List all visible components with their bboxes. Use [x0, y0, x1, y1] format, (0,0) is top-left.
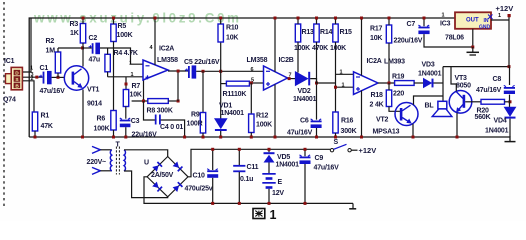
svg-text:9014: 9014 [87, 101, 102, 108]
svg-text:470u/25v: 470u/25v [185, 186, 213, 193]
resistor R13 [295, 24, 300, 42]
wire C3 to rail [125, 127, 127, 137]
regulator IC3 78L06 box [455, 12, 493, 30]
wire R7 jog from input [125, 77, 127, 90]
wire C1 to VT1 base [52, 76, 65, 78]
wire VD3 to riser [434, 82, 444, 84]
node dot R17 rail [388, 17, 391, 20]
wire R17 to rail [388, 18, 390, 25]
svg-text:VT1: VT1 [87, 87, 100, 94]
svg-text:R4 4.7K: R4 4.7K [114, 50, 138, 57]
svg-text:47u/16V: 47u/16V [40, 88, 66, 95]
svg-text:1N4001: 1N4001 [418, 71, 442, 78]
node dot pin3/C1 junction [35, 76, 38, 79]
torn page dotted edge [3, 2, 5, 206]
svg-text:R14: R14 [320, 29, 333, 36]
svg-text:IC2A: IC2A [367, 58, 382, 65]
resistor R12 [249, 114, 254, 133]
bridge diode top-left [152, 161, 162, 171]
svg-text:100K: 100K [294, 45, 310, 52]
node dot C11 bottom [238, 202, 241, 205]
wire comparator minus input stub [336, 86, 354, 88]
node dot R5 rail [112, 17, 115, 20]
resistor R11 [226, 81, 249, 86]
node dot C7 rail [423, 17, 426, 20]
svg-text:C6: C6 [300, 118, 309, 125]
wire R9 column [202, 71, 204, 112]
svg-text:100K: 100K [94, 126, 110, 133]
node dot C9 top [304, 148, 307, 151]
resistor R7 [123, 90, 128, 107]
wire C11 bottom stub [238, 172, 240, 203]
wire C8 bottom stub [509, 95, 511, 108]
svg-text:C1: C1 [40, 65, 49, 72]
diode VD5 [264, 152, 275, 162]
wire C10 bottom stub [212, 178, 214, 204]
svg-text:R9: R9 [191, 112, 200, 119]
svg-text:1N4001: 1N4001 [485, 128, 509, 135]
wire R7 to C3 [125, 107, 127, 119]
svg-text:R13: R13 [302, 29, 315, 36]
wire VT2 emitter [412, 124, 414, 137]
resistor R5 [111, 24, 116, 42]
top +12V rail wire [29, 18, 455, 137]
svg-text:C3: C3 [131, 118, 140, 125]
svg-text:R19: R19 [392, 74, 405, 81]
capacitor C6 [311, 119, 322, 128]
resistor R6 [111, 111, 116, 131]
transistor VT2 [395, 103, 418, 126]
svg-text:VD2: VD2 [298, 88, 311, 95]
wire R3 to rail [82, 18, 84, 24]
node dot C8 bottom [509, 100, 512, 103]
svg-text:5: 5 [251, 78, 254, 84]
svg-text:R10: R10 [226, 25, 239, 32]
node dot R13 rail [297, 17, 300, 20]
wire R11 left tap [221, 83, 227, 85]
wire VD3 node riser [442, 67, 444, 102]
wire R14 to rail [316, 18, 318, 24]
svg-text:1: 1 [498, 13, 501, 19]
svg-text:VT2: VT2 [376, 117, 389, 124]
svg-text:R17: R17 [370, 26, 383, 33]
svg-text:C2: C2 [89, 35, 98, 42]
diode VD4 [505, 107, 516, 118]
resistor R14 [314, 24, 319, 42]
wire C7 bottom to IC3 gnd [424, 34, 473, 47]
battery E [262, 173, 275, 189]
node dot IC3 gnd [471, 46, 474, 49]
bottom ground rail wire [29, 137, 510, 141]
wire C9 bottom stub [304, 164, 306, 203]
wire R4 bottom stub [107, 72, 109, 77]
node dot IC2B output [288, 77, 291, 80]
resistor R16 [333, 112, 338, 133]
diode VD1 [215, 119, 227, 131]
wire R8 right to output column [168, 100, 178, 102]
resistor R8 [148, 99, 169, 104]
wire comparator power bottom [361, 91, 363, 138]
node dot IC2A power rail [154, 17, 157, 20]
svg-text:1: 1 [442, 13, 445, 19]
capacitor C4 [155, 115, 161, 125]
svg-text:R5: R5 [118, 23, 127, 30]
svg-text:BL: BL [425, 103, 435, 110]
svg-text:VD3: VD3 [422, 62, 435, 69]
wire VT3 emitter [456, 113, 458, 137]
svg-text:220u/16V: 220u/16V [394, 38, 423, 45]
node dot +12V top [508, 14, 511, 17]
wire R2 bottom to base wire [57, 73, 59, 77]
node dot R8 right [177, 100, 180, 103]
wire R5 to rail [113, 18, 115, 24]
wire VD1 to rail [220, 131, 222, 137]
op-amp IC2A [143, 60, 168, 80]
wire R19 to VD3 [414, 82, 423, 84]
svg-text:R8 300K: R8 300K [147, 108, 173, 115]
bridge diode bottom-right [173, 182, 183, 192]
svg-text:Q74: Q74 [3, 97, 16, 104]
wire IC3 output pin to +12V column [491, 19, 509, 21]
node dot C10 top [211, 148, 214, 151]
AC source chevron lower [92, 167, 100, 174]
wire C2 to +input corner [100, 48, 143, 64]
ground symbol return end [349, 203, 356, 208]
wire node48 horizontal [58, 47, 83, 49]
wire output feedback column [177, 71, 179, 101]
svg-text:IC2A: IC2A [159, 46, 174, 53]
svg-text:10K: 10K [130, 92, 142, 99]
node dot R12 top [250, 81, 253, 84]
svg-text:R2: R2 [46, 38, 55, 45]
wire VT1 collector up [82, 48, 84, 67]
ground symbol IC3 [467, 47, 480, 55]
svg-text:10K: 10K [226, 35, 238, 42]
svg-text:R15: R15 [340, 29, 353, 36]
node dot R8 left [142, 100, 145, 103]
svg-text:C4 0 01: C4 0 01 [160, 124, 183, 131]
node dot C11 top [238, 148, 241, 151]
node dot R2 bottom [57, 76, 60, 79]
wire VT2 collector [414, 96, 444, 105]
wire sensor pin1 to top rail [23, 18, 31, 72]
wire R4 top stub [107, 48, 109, 54]
wire R13 to rail [297, 18, 299, 24]
svg-text:U: U [144, 160, 149, 167]
wire primary bottom lead [100, 170, 111, 172]
svg-text:LM358: LM358 [157, 57, 178, 64]
wire R9 to rail [202, 133, 204, 137]
svg-text:1M: 1M [46, 48, 56, 55]
svg-text:10K: 10K [370, 35, 382, 42]
node dot R16 top [334, 86, 337, 89]
wire comparator output [378, 82, 395, 84]
capacitor C8 [504, 85, 515, 94]
svg-text:E: E [278, 179, 283, 186]
wire VT1 emitter down [82, 90, 84, 138]
wire bridge DC- to ground return [144, 177, 353, 204]
capacitor C1 [39, 71, 52, 84]
svg-text:GND: GND [479, 24, 491, 30]
node dot output [177, 70, 180, 73]
speaker BL box [432, 101, 452, 116]
svg-text:MPSA13: MPSA13 [373, 129, 400, 136]
AC source chevron upper [92, 146, 100, 153]
svg-text:100K: 100K [117, 32, 133, 39]
node dot battery bottom [268, 202, 271, 205]
capacitor C5 [185, 65, 196, 78]
wire VD5 to battery [268, 163, 270, 174]
wire secondary top to bridge [124, 150, 168, 157]
svg-text:VT3: VT3 [455, 75, 468, 82]
transistor VT1 [64, 66, 88, 90]
switch S [330, 144, 351, 152]
svg-text:1K: 1K [70, 30, 79, 37]
bridge diode top-right [173, 161, 183, 171]
wire R3 bottom to node [82, 43, 84, 48]
svg-text:R12: R12 [256, 113, 269, 120]
capacitor C7 [418, 25, 429, 34]
node dot VD5 top [268, 148, 271, 151]
capacitor C10 [207, 169, 218, 178]
svg-text:C8: C8 [493, 76, 502, 83]
wire C11 top stub [238, 149, 240, 165]
node dot R15 rail [334, 17, 337, 20]
svg-text:VD4: VD4 [494, 118, 507, 125]
diode VD3 [424, 79, 434, 88]
wire sensor pin3 to C1 [23, 76, 43, 78]
wire VT3 base to R20 [465, 101, 481, 103]
wire IC2B output [288, 78, 296, 80]
wire R10 to rail [220, 18, 222, 24]
svg-text:47u/16V: 47u/16V [314, 165, 340, 172]
wire R18 top stub [388, 83, 390, 90]
resistor R15 [333, 24, 338, 42]
svg-text:47u/16V: 47u/16V [476, 87, 502, 94]
svg-text:1N4001: 1N4001 [276, 162, 300, 169]
wire inverting input run [108, 76, 143, 78]
svg-text:R1: R1 [41, 113, 50, 120]
wire R8 left stub [132, 100, 148, 102]
wire secondary bottom to bridge [124, 171, 168, 198]
svg-text:22u/16V: 22u/16V [132, 132, 158, 139]
resistor R18 [386, 90, 391, 107]
svg-text:IC3: IC3 [440, 21, 451, 28]
svg-text:47u/16V: 47u/16V [287, 130, 313, 137]
wire VD4 to rail [509, 119, 511, 137]
bridge rectifier U outline [147, 157, 188, 197]
svg-text:1: 1 [340, 70, 343, 76]
wire primary top lead [100, 149, 111, 151]
wire feedback node vertical [143, 77, 145, 101]
wire C6 to rail [316, 128, 318, 137]
bottom rail junction dots [34, 136, 459, 139]
svg-text:D: D [15, 71, 19, 77]
wire R17 pullup column [388, 43, 390, 83]
resistor R9 [200, 113, 205, 134]
capacitor C3 [120, 118, 131, 127]
resistor R10 [218, 24, 223, 42]
wire R1 to rail [34, 131, 36, 137]
svg-text:R1110K: R1110K [223, 91, 247, 98]
svg-text:12V: 12V [272, 190, 284, 197]
sensor IC1 Q74 body [6, 67, 23, 89]
svg-text:1N4001: 1N4001 [221, 110, 245, 117]
wire R2 top to node [57, 48, 59, 52]
svg-text:1: 1 [30, 65, 33, 71]
node dot R14 rail [315, 17, 318, 20]
svg-text:S: S [334, 139, 339, 146]
node dot R9 top [202, 70, 205, 73]
svg-text:R16: R16 [341, 118, 354, 125]
svg-text:R3: R3 [70, 21, 79, 28]
bridge diode bottom-left [152, 182, 162, 192]
svg-text:VD1: VD1 [219, 103, 232, 110]
wire R16 to rail [335, 133, 337, 137]
node dot comparator output [388, 82, 391, 85]
node dot R7 top [125, 83, 128, 86]
wire C8 top stub [509, 67, 511, 85]
resistor R4 [105, 54, 110, 72]
wire VD5 top stub [268, 149, 270, 152]
svg-text:220: 220 [393, 91, 404, 98]
label figure 图 1 [253, 208, 277, 222]
transistor VT3 [449, 91, 472, 114]
svg-text:1: 1 [270, 208, 277, 221]
comparator IC2A LM393 [354, 72, 379, 95]
svg-text:1N4001: 1N4001 [293, 96, 317, 103]
svg-text:+12V: +12V [496, 4, 514, 13]
svg-text:IC1: IC1 [4, 58, 15, 65]
wire IC2B power top [274, 18, 276, 72]
wire C9 top stub [304, 149, 306, 156]
svg-text:C10: C10 [193, 173, 206, 180]
svg-text:IC2B: IC2B [279, 57, 294, 64]
svg-text:LM393: LM393 [384, 59, 405, 66]
svg-text:2A/50V: 2A/50V [151, 172, 174, 179]
wire IC2B power bottom [274, 85, 276, 138]
svg-text:8050: 8050 [456, 83, 471, 90]
wire node to C2 [83, 47, 92, 49]
svg-text:300K: 300K [341, 128, 357, 135]
diode VD2 [295, 72, 310, 86]
svg-text:B: B [15, 83, 19, 89]
svg-text:C11: C11 [247, 164, 259, 171]
capacitor C2 [89, 43, 100, 55]
wire battery bottom stub [268, 189, 270, 204]
wire R20 to node [505, 101, 511, 103]
resistor R19 [395, 81, 415, 86]
svg-text:C9: C9 [315, 155, 324, 162]
svg-text:100K: 100K [256, 122, 272, 129]
wire comparator power top [361, 18, 363, 76]
wire C4 loop [144, 101, 185, 137]
wire bridge DC+ riser to supply line [188, 149, 330, 177]
node dot comparator power rail [360, 17, 363, 20]
capacitor C9 [300, 155, 311, 164]
svg-text:R6: R6 [97, 116, 106, 123]
node dot VD2 output [315, 82, 318, 85]
node dot IC2B power rail [274, 17, 277, 20]
wire comparator plus input stub [336, 73, 354, 75]
capacitor C11 [233, 165, 245, 172]
svg-text:C7: C7 [407, 21, 416, 28]
svg-text:1: 1 [131, 72, 134, 78]
svg-text:2: 2 [31, 76, 34, 82]
wire VT3 collector jog [451, 67, 456, 92]
wire C7 top stub [423, 18, 425, 26]
transformer T [110, 147, 125, 175]
svg-text:+12V: +12V [359, 146, 377, 155]
svg-text:100K: 100K [330, 45, 346, 52]
svg-text:OUT: OUT [466, 18, 479, 24]
node dot +12V corner [508, 65, 511, 68]
svg-text:C5 22u/16V: C5 22u/16V [184, 59, 220, 66]
wire R15 R16 column [335, 42, 337, 112]
svg-text:560K: 560K [475, 114, 491, 121]
resistor R20 [481, 99, 505, 104]
wire IC2A power from rail [154, 18, 156, 65]
svg-text:78L06: 78L06 [445, 35, 464, 42]
wire R10 VD1 column [220, 42, 222, 119]
wire sensor pin2 down to R1 [23, 81, 34, 112]
svg-text:47K: 47K [41, 123, 53, 130]
ground bar at rail right end [505, 141, 516, 143]
wire R6 to rail [113, 130, 115, 137]
wire switch to +12V stub [351, 149, 357, 151]
wire R12 to rail [250, 133, 252, 138]
svg-text:0.1u: 0.1u [240, 176, 253, 183]
svg-text:VD5: VD5 [277, 154, 290, 161]
wire R14 down to VD2 node [316, 42, 318, 120]
wire IC3 gnd pin [472, 29, 474, 47]
wire IC2A output [168, 70, 188, 72]
svg-text:470K: 470K [312, 45, 328, 52]
resistor R1 [32, 112, 37, 131]
wire VD2 node to comparator column [310, 79, 335, 83]
svg-text:R7: R7 [132, 83, 141, 90]
node dot R10 rail [219, 17, 222, 20]
wire +12V feed horizontal [443, 66, 509, 68]
svg-text:100R: 100R [187, 121, 203, 128]
svg-text:1: 1 [129, 61, 132, 67]
resistor R17 [386, 25, 391, 43]
wire R11 to pin5 [249, 82, 263, 84]
wire R18 to VT2 base [389, 107, 401, 112]
wire R15 to rail [335, 18, 337, 24]
node dot C9 bottom [304, 202, 307, 205]
wire C10 top stub [212, 149, 214, 170]
node dot collector node [81, 46, 84, 49]
wire R13 down to VD2 [297, 42, 299, 73]
svg-text:220V~: 220V~ [87, 159, 107, 166]
svg-text:47u: 47u [89, 57, 100, 64]
resistor R2 [55, 52, 60, 73]
svg-text:2 4K: 2 4K [370, 102, 384, 109]
wire C5 to IC2B pin6 [196, 70, 263, 72]
wire +12V column [508, 16, 510, 67]
node dot R3 rail [82, 17, 85, 20]
resistor R3 [80, 24, 85, 44]
node dot C10 bottom [211, 202, 214, 205]
svg-text:1: 1 [342, 83, 345, 89]
op-amp IC2B [264, 66, 288, 90]
svg-text:LM358: LM358 [247, 57, 268, 64]
node dot VD1 column top [219, 70, 222, 73]
svg-text:6: 6 [251, 67, 254, 73]
wire R5 down to divider tap [113, 42, 115, 111]
wire R12 column [250, 83, 252, 114]
